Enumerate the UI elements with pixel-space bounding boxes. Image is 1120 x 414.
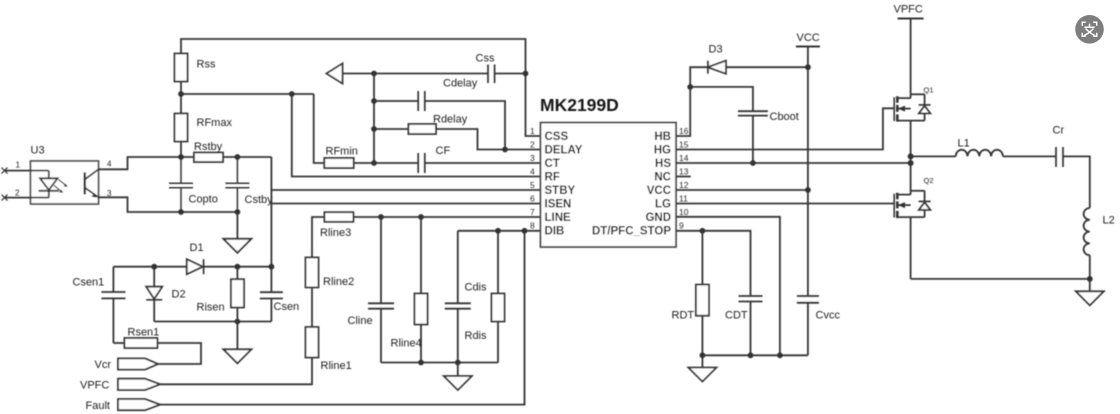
svg-text:14: 14: [679, 153, 689, 163]
wire sense top rail: [113, 266, 186, 268]
svg-text:RFmin: RFmin: [326, 146, 358, 158]
svg-text:1: 1: [530, 126, 535, 136]
svg-text:L1: L1: [958, 138, 970, 150]
svg-text:DELAY: DELAY: [545, 145, 583, 157]
resistor Rline4: [420, 217, 422, 363]
svg-text:Cline: Cline: [348, 315, 373, 327]
body diode of Q1: [924, 94, 926, 120]
svg-text:NC: NC: [654, 172, 671, 184]
node junction Cdelay row: [371, 98, 377, 104]
resistor RDT: [701, 231, 703, 355]
wire Rdelay to DELAY pin 2: [436, 129, 541, 150]
svg-text:D2: D2: [172, 289, 186, 301]
resistor Risen: [236, 267, 238, 322]
node junction Copto bottom rail: [178, 209, 184, 215]
svg-text:Rline1: Rline1: [321, 360, 352, 372]
svg-text:Cboot: Cboot: [770, 111, 799, 123]
wire sense bottom rail: [154, 321, 271, 323]
node junction RDT bottom / ground: [700, 352, 706, 358]
wire Css to CSS column: [495, 73, 526, 75]
svg-text:VCC: VCC: [647, 185, 671, 197]
svg-text:7: 7: [530, 207, 535, 217]
svg-text:VPFC: VPFC: [894, 4, 923, 16]
capacitor Csen1: [101, 267, 125, 343]
svg-text:15: 15: [679, 140, 689, 150]
node junction RDT top: [700, 228, 706, 234]
resistor Rdis: [497, 231, 499, 363]
ground bottom right: [1089, 279, 1091, 291]
wire switch node to L1: [911, 155, 956, 157]
capacitor Css: [488, 65, 495, 84]
svg-text:VCC: VCC: [797, 32, 820, 44]
capacitor Copto: [169, 157, 193, 212]
wire DT pin 9 row: [676, 231, 751, 296]
svg-text:HB: HB: [654, 131, 671, 143]
node junction Cboot / HS row: [750, 160, 756, 166]
wire LINE row left of Rline3: [312, 217, 324, 257]
node junction Rstby right / Cstby: [235, 154, 241, 160]
wire row y94 to RFmin column: [181, 93, 314, 95]
svg-text:Q1: Q1: [924, 86, 934, 95]
node junction Cboot branch: [687, 84, 693, 90]
wire Cr to L2: [1063, 156, 1090, 208]
LED inside U3: [48, 171, 50, 179]
pin 1 wire: [5, 170, 49, 172]
resistor Rline2: [306, 257, 319, 287]
svg-text:GND: GND: [645, 212, 671, 224]
node junction Rdelay row: [371, 126, 377, 132]
node junction CDT bottom: [748, 352, 754, 358]
svg-text:ISEN: ISEN: [545, 199, 572, 211]
capacitor CDT: [739, 296, 763, 355]
svg-text:LINE: LINE: [545, 212, 572, 224]
pin 1 external x-mark: [2, 168, 8, 174]
svg-text:RFmax: RFmax: [197, 117, 233, 129]
tag VPFC: [118, 379, 160, 390]
svg-text:16: 16: [679, 126, 689, 136]
capacitor Cvcc: [797, 296, 819, 355]
wire arrow row to Css: [343, 73, 489, 75]
wire GND pin 10 down: [676, 217, 780, 355]
node switch node upper: [908, 153, 914, 159]
svg-text:CDT: CDT: [725, 310, 748, 322]
inductor L2: [1084, 208, 1090, 255]
svg-text:4: 4: [530, 167, 535, 177]
wire D1 cathode to stby column: [204, 266, 272, 268]
node junction Risen top: [235, 264, 241, 270]
resistor Rsen1: [124, 338, 157, 348]
wire Cdelay to DELAY node: [425, 101, 505, 150]
wire Rline3 to LINE pin 7: [353, 216, 540, 218]
resistor Rss: [175, 54, 188, 82]
wire stby column vertical: [270, 157, 272, 292]
off-page arrow connector: [327, 64, 343, 84]
wire L2 bottom: [1089, 255, 1091, 279]
resistor RFmax: [175, 114, 188, 142]
svg-text:10: 10: [679, 207, 689, 217]
wire dis bottom rail: [381, 362, 498, 364]
svg-text:Cdelay: Cdelay: [443, 78, 478, 90]
ground below Cdis: [457, 363, 459, 377]
capacitor Cdelay: [418, 91, 425, 111]
svg-text:2: 2: [15, 189, 20, 198]
svg-text:D3: D3: [709, 44, 723, 56]
pin 3 wire to bottom rail: [99, 197, 238, 212]
svg-text:Copto: Copto: [189, 194, 218, 206]
svg-text:Cstby: Cstby: [245, 194, 274, 206]
svg-text:L2: L2: [1103, 215, 1115, 227]
wire HS pin 14 to switch node: [676, 162, 911, 164]
opto-coupler U3 body: [31, 161, 99, 204]
tag Vcr: [118, 358, 158, 369]
svg-text:CSS: CSS: [545, 131, 569, 143]
wire Csen1 to Rsen1: [113, 342, 124, 344]
svg-text:12: 12: [679, 180, 689, 190]
svg-text:Cr: Cr: [1053, 125, 1065, 137]
svg-text:13: 13: [679, 167, 689, 177]
svg-text:HS: HS: [655, 158, 671, 170]
wire gnd bottom rail: [702, 354, 808, 356]
pin 2 wire: [5, 197, 49, 199]
svg-text:4: 4: [107, 160, 112, 169]
LED emission arrows: [54, 180, 67, 192]
phototransistor inside U3: [83, 172, 85, 194]
node junction Rstby left / Copto: [178, 154, 184, 160]
node junction Risen bottom: [235, 319, 241, 325]
svg-text:Risen: Risen: [197, 302, 225, 314]
svg-text:STBY: STBY: [545, 185, 576, 197]
node junction L2 / return rail: [1087, 276, 1093, 282]
wire VCC column vertical: [807, 47, 809, 297]
node junction Rdis / DIB row: [495, 228, 501, 234]
wire Rdelay row left: [374, 128, 408, 130]
node junction DELAY row: [502, 147, 508, 153]
tag Fault: [118, 399, 160, 410]
svg-text:9: 9: [679, 221, 684, 231]
svg-text:DT/PFC_STOP: DT/PFC_STOP: [592, 226, 671, 238]
svg-text:Fault: Fault: [86, 400, 110, 412]
svg-text:Csen1: Csen1: [73, 277, 105, 289]
capacitor Csen: [260, 292, 283, 321]
op-amp U1 MK2199D body: [541, 123, 677, 247]
wire RFmax bottom to Rstby row: [180, 142, 182, 158]
wire return rail: [911, 278, 1090, 280]
wire Rline2 to Rline1: [311, 287, 313, 327]
svg-text:RDT: RDT: [672, 310, 695, 322]
svg-text:Cvcc: Cvcc: [816, 310, 841, 322]
capacitor Cstby: [225, 157, 249, 212]
wire RF branch down to pin 4 RF: [292, 94, 541, 177]
svg-text:U3: U3: [31, 145, 45, 157]
capacitor Cline: [368, 217, 394, 363]
svg-text:2: 2: [530, 140, 535, 150]
capacitor CF: [418, 153, 425, 173]
svg-text:Rsen1: Rsen1: [128, 327, 160, 339]
capacitor Cboot: [738, 111, 768, 163]
pin 4 wire to Rstby node: [99, 157, 195, 169]
svg-text:3: 3: [530, 153, 535, 163]
wire top rail from Rss top to CSS pin column: [181, 39, 541, 136]
svg-text:Csen: Csen: [274, 301, 300, 313]
node junction Cline / LINE row: [378, 214, 384, 220]
wire CF to CT pin 3: [425, 162, 541, 164]
wire NC pin 13 stub: [676, 176, 691, 178]
svg-text:Css: Css: [476, 53, 495, 65]
wire switch node vertical: [910, 156, 912, 190]
svg-text:MK2199D: MK2199D: [540, 95, 619, 115]
wire ISEN row to pin 6: [271, 203, 540, 205]
diode D2: [153, 267, 155, 287]
body diode of Q2: [924, 191, 926, 217]
ground below Risen: [236, 322, 238, 350]
svg-text:Rdis: Rdis: [465, 330, 488, 342]
overlay translate button: [1075, 15, 1104, 44]
node junction D3 / VCC column: [805, 64, 811, 70]
wire STBY row to pin 5: [271, 189, 540, 191]
capacitor Cdis: [445, 231, 471, 363]
diode D3: [707, 61, 709, 74]
svg-text:8: 8: [530, 221, 535, 231]
node junction Cdis bottom / ground: [455, 360, 461, 366]
wire DIB row to pin 8: [458, 230, 541, 232]
svg-text:Cdis: Cdis: [465, 282, 488, 294]
svg-text:1: 1: [16, 161, 21, 170]
capacitor Cr: [1056, 147, 1063, 167]
svg-text:RF: RF: [545, 172, 560, 184]
wire RFmin to CF: [354, 162, 419, 164]
diode D1: [187, 259, 203, 274]
svg-text:CF: CF: [436, 145, 451, 157]
node junction arrow row / delay column: [371, 71, 377, 77]
svg-text:Rline4: Rline4: [391, 338, 422, 350]
svg-text:D1: D1: [190, 242, 204, 254]
ground below Cstby: [236, 212, 238, 239]
svg-text:Rss: Rss: [197, 59, 216, 71]
svg-text:5: 5: [530, 180, 535, 190]
node junction Fault column / DIB row: [522, 228, 528, 234]
svg-text:Rline3: Rline3: [320, 227, 351, 239]
svg-text:LG: LG: [655, 199, 671, 211]
node junction row94/RF branch: [289, 91, 295, 97]
svg-text:Q2: Q2: [924, 176, 934, 185]
wire Rsen1 to Vcr corner: [157, 343, 201, 364]
node junction Rline4 / LINE row: [418, 214, 424, 220]
inductor L1: [956, 150, 1003, 157]
pin 2 external x-mark: [2, 195, 8, 201]
svg-text:DIB: DIB: [545, 226, 565, 238]
resistor Rline1: [306, 327, 319, 358]
svg-text:VPFC: VPFC: [80, 380, 109, 392]
wire VPFC to Q1 drain: [910, 19, 912, 95]
resistor RFmin: [324, 158, 353, 168]
resistor Rline3: [324, 212, 353, 222]
resistor Rdelay: [408, 124, 436, 134]
wire Cboot branch: [690, 87, 753, 111]
svg-text:Rdelay: Rdelay: [433, 114, 468, 126]
wire Fault to DIB node: [160, 231, 525, 405]
wire delay column vertical: [373, 74, 375, 164]
ground below RDT: [701, 355, 703, 367]
node junction VCC row / VCC column: [805, 187, 811, 193]
wire Rss bottom to RFmax top: [180, 82, 182, 114]
node junction Rss/RFmax/row94: [178, 91, 184, 97]
wire RFmin feed down: [314, 94, 325, 163]
svg-text:Vcr: Vcr: [95, 359, 112, 371]
svg-text:Rstby: Rstby: [194, 141, 223, 153]
svg-text:Rline2: Rline2: [323, 276, 354, 288]
resistor Rstby: [194, 153, 223, 163]
node junction D2 top: [151, 264, 157, 270]
node junction GND column bottom: [777, 352, 783, 358]
wire HG pin 15 to Q1 gate: [676, 108, 894, 149]
wire Rstby right to stby column: [223, 156, 271, 158]
wire D3 anode to VCC column: [726, 66, 808, 68]
svg-text:3: 3: [107, 189, 112, 198]
svg-text:HG: HG: [654, 145, 671, 157]
wire LG pin 11 to Q2 gate: [676, 203, 894, 205]
node junction Css row / CSS column: [523, 71, 529, 77]
node junction Rline4 bottom: [418, 360, 424, 366]
svg-text:CT: CT: [545, 158, 560, 170]
svg-text:6: 6: [530, 194, 535, 204]
wire Cdelay row left: [374, 100, 418, 102]
node junction sense rail / stby column: [269, 264, 275, 270]
node switch node lower (HS): [908, 160, 914, 166]
wire HB pin 16 up: [676, 67, 708, 136]
wire VCC pin 12 row: [676, 189, 808, 191]
node junction Cstby bottom rail: [235, 209, 241, 215]
svg-text:11: 11: [679, 194, 688, 204]
wire VPFC to Rline column: [160, 358, 312, 385]
wire L1 to Cr: [1003, 155, 1056, 157]
node junction CF row: [371, 160, 377, 166]
